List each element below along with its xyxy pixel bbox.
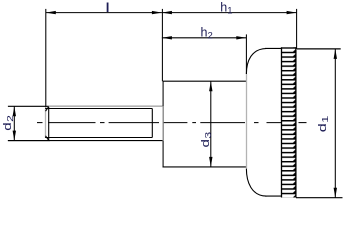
- dimension d1: label: [316, 115, 330, 132]
- dimension d1: dimension line: [334, 49, 336, 198]
- knurl band fill: [282, 47, 296, 197]
- shank end face (grey): [45, 109, 47, 138]
- thread major line top (grey): [49, 105, 164, 107]
- dimension d2: bottom arrow: [13, 131, 16, 141]
- dimension d1: bottom arrow: [334, 188, 337, 198]
- thread minor line top: [45, 108, 152, 110]
- dimension d2: dimension line: [13, 106, 15, 140]
- knurl band right edge (head right face): [295, 47, 297, 197]
- hub bottom line: [163, 166, 247, 168]
- chamfer diagonal bottom: [46, 136, 49, 141]
- dimension d3: bottom arrow: [209, 157, 212, 167]
- head top line: [265, 47, 297, 49]
- head bottom line: [265, 195, 296, 197]
- dimension h1: dimension line: [162, 12, 297, 14]
- dimension d3: top arrow: [209, 81, 212, 91]
- dimension d3: label: [199, 131, 214, 147]
- dimension h2: left arrow: [162, 36, 172, 39]
- thread runout vertical: [151, 109, 153, 138]
- dimension h2: dimension line: [162, 37, 246, 39]
- head fillet bottom: [246, 169, 266, 196]
- knurl band left edge: [281, 47, 283, 197]
- extension line for l left end: [45, 9, 47, 108]
- thread major line bottom (black): [8, 140, 164, 142]
- dimension h2: right arrow: [236, 36, 246, 39]
- dimension d1: top arrow: [334, 49, 337, 59]
- svg-text:l: l: [106, 0, 110, 15]
- dimension l: right arrow: [152, 11, 162, 14]
- dimension d2: label: [1, 115, 16, 131]
- shared extension line l/h1/h2 continuing as hub left face: [161, 9, 163, 81]
- d1 extension line bottom: [296, 197, 343, 199]
- d2 extension line bottom: [8, 140, 50, 142]
- d1 extension line top: [297, 48, 341, 50]
- centerline (axis, dash-dot): [37, 122, 307, 124]
- hub left face grey midsection: [162, 106, 164, 141]
- chamfer diagonal top: [46, 107, 49, 112]
- d2 extension line top: [8, 105, 50, 107]
- dimension l: left arrow: [46, 11, 56, 14]
- dimension h1: left arrow: [162, 11, 172, 14]
- dimension d2: top arrow: [13, 106, 16, 116]
- chamfer edge vertical: [48, 106, 50, 140]
- hub top line: [163, 80, 247, 82]
- head fillet top: [246, 49, 266, 75]
- thread minor line bottom: [45, 137, 152, 139]
- dimension h1: right arrow: [287, 11, 297, 14]
- head tangent edge (grey vertical): [246, 74, 248, 169]
- dimension d3: dimension line: [210, 81, 212, 167]
- hub left face: [162, 81, 164, 167]
- extension line h1 right end: [296, 9, 298, 48]
- extension line h2 right end: [245, 34, 247, 74]
- dimension l: dimension line: [46, 12, 162, 14]
